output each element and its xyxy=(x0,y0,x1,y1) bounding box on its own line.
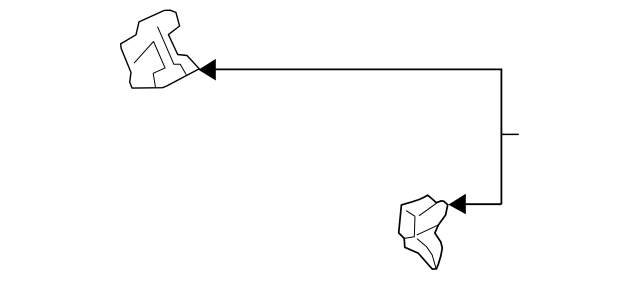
part 2 interior: vertical facet edge xyxy=(404,216,415,238)
part 1: hood lock bracket (top-left) outline xyxy=(121,10,200,88)
leader line horizontal (top) xyxy=(216,68,502,70)
part 2 interior: lower lobe crease xyxy=(417,239,436,268)
part 2 interior: upper diagonal ridge xyxy=(419,203,437,216)
leader line vertical (right) xyxy=(500,69,502,205)
part 1 interior: stepped slot line xyxy=(158,27,187,75)
part 2: lock striker bracket (bottom-right) outline xyxy=(399,195,448,269)
arrowhead 2 (points left at part 2) xyxy=(448,194,465,214)
leader line horizontal (bottom) xyxy=(466,203,502,205)
part 1 interior: fold ridge polyline xyxy=(134,42,165,88)
part 2 interior: left ridge xyxy=(406,211,415,217)
arrowhead 1 (points left at part 1) xyxy=(198,59,215,81)
part 2 interior: lower diagonal ridge xyxy=(417,225,439,235)
tick mark on vertical line xyxy=(502,133,519,135)
